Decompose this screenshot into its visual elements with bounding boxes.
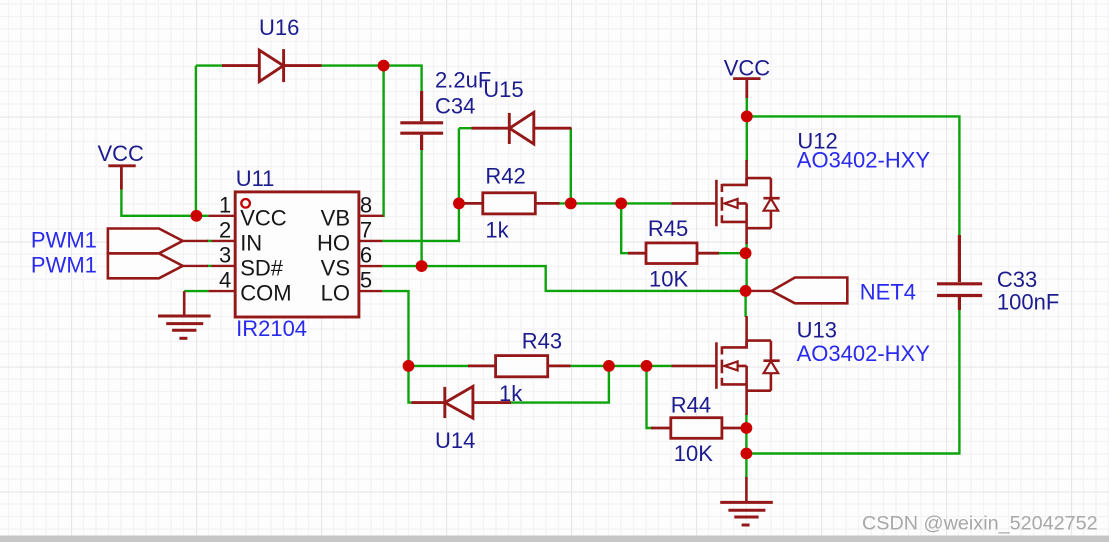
- internal vertical drain/source connections: [745, 341, 748, 415]
- wire R43 left lead green segment: [409, 365, 471, 367]
- gate lead: [672, 202, 717, 205]
- wire R45 branch vertical and left lead: [621, 203, 630, 253]
- svg-text:10K: 10K: [649, 266, 688, 291]
- svg-text:SD#: SD#: [240, 256, 284, 281]
- svg-text:100nF: 100nF: [997, 290, 1059, 315]
- port PWM1 (pin2): [108, 229, 183, 254]
- wire R44 right lead green bit: [742, 427, 746, 429]
- node ground rail: [741, 448, 753, 460]
- svg-text:VCC: VCC: [724, 56, 771, 81]
- wire pin4 COM to ground corner: [184, 290, 208, 292]
- svg-text:U16: U16: [259, 15, 299, 40]
- svg-text:PWM1: PWM1: [31, 253, 97, 278]
- svg-text:VCC: VCC: [240, 205, 287, 230]
- wire U15 right corner down to R42-right junction: [570, 128, 572, 203]
- wire VB vertical from top junction to pin8: [382, 66, 385, 216]
- wire VCC-right down to top-right junction: [746, 97, 748, 116]
- wire U13 source through junctions to ground: [745, 413, 747, 478]
- port NET4 lead: [748, 290, 772, 292]
- resistor R42: [465, 193, 560, 214]
- svg-text:U13: U13: [797, 318, 837, 343]
- node R44 right / U13 source: [741, 422, 753, 434]
- node NET4: [740, 285, 752, 297]
- node VCC top right: [741, 111, 753, 123]
- body diode cathode bar: [763, 359, 779, 362]
- svg-text:HO: HO: [317, 230, 350, 255]
- wire VCC-left vertical+horizontal to pin1 junction: [121, 189, 208, 216]
- wire U16 cathode to C34 top corner: [320, 66, 422, 93]
- wire R45 right lead green bit: [717, 252, 746, 254]
- svg-text:U14: U14: [435, 428, 475, 453]
- gate bar: [715, 180, 718, 227]
- wire top bootstrap rail left vertical: [195, 66, 197, 216]
- svg-text:1k: 1k: [499, 381, 523, 406]
- svg-text:4: 4: [219, 268, 231, 293]
- svg-text:2: 2: [219, 217, 231, 242]
- mid stub: [725, 365, 747, 368]
- U11 pin stubs left (1-4): [208, 216, 235, 291]
- node R43 left / LO: [403, 360, 415, 372]
- capacitor C33: [937, 235, 982, 310]
- body diode top/bottom bars: [747, 341, 771, 391]
- wire ground rail to C33 bottom: [746, 308, 959, 454]
- node R42 left / HO: [453, 198, 465, 210]
- body diode vertical: [770, 341, 773, 391]
- node VB bootstrap junction: [378, 60, 390, 72]
- mid stub: [725, 202, 747, 205]
- pin1 indicator circle: [241, 199, 250, 208]
- gate lead: [672, 365, 717, 368]
- ground GND1 (under U11): [158, 291, 211, 338]
- svg-text:IR2104: IR2104: [236, 316, 307, 341]
- wire NET4 node down to U13 drain: [744, 291, 746, 317]
- body diode triangle: [764, 199, 779, 211]
- svg-text:PWM1: PWM1: [31, 228, 97, 253]
- resistor R44: [651, 418, 745, 439]
- wire U15 left corner down to R42-left junction: [459, 128, 473, 203]
- svg-text:IN: IN: [240, 230, 262, 255]
- svg-text:U11: U11: [236, 166, 275, 191]
- svg-text:10K: 10K: [674, 441, 713, 466]
- power port VCC right: [733, 79, 760, 98]
- port PWM1 leads to pins 2,3: [183, 241, 208, 266]
- svg-text:R42: R42: [485, 164, 525, 189]
- svg-text:6: 6: [360, 243, 372, 268]
- svg-text:C34: C34: [435, 94, 475, 119]
- svg-text:1: 1: [219, 192, 231, 217]
- source stub: [722, 221, 747, 224]
- svg-text:C33: C33: [997, 267, 1037, 292]
- port NET4: [772, 278, 848, 304]
- svg-text:R44: R44: [671, 393, 711, 418]
- wire VS pin6 run to NET4 node: [382, 266, 745, 291]
- svg-text:COM: COM: [240, 281, 291, 306]
- svg-text:8: 8: [360, 192, 372, 217]
- svg-text:LO: LO: [321, 281, 350, 306]
- node R45 branch: [615, 198, 627, 210]
- body diode cathode bar: [763, 197, 779, 200]
- body diode top/bottom bars: [747, 178, 771, 228]
- IC U11 IR2104 body: [235, 192, 359, 317]
- gate bar: [715, 342, 718, 389]
- wire LO pin5 to R43-left riser: [382, 291, 408, 366]
- arrow on mid stub: [725, 199, 738, 208]
- wire top-right rail to C33 top: [747, 116, 960, 237]
- node R44 branch: [641, 360, 653, 372]
- svg-text:AO3402-HXY: AO3402-HXY: [797, 341, 931, 366]
- wire U12 source to NET4 node: [745, 242, 747, 291]
- wire U12 drain riser: [746, 116, 748, 162]
- node pin1/VCC junction: [191, 210, 203, 222]
- svg-text:U15: U15: [483, 77, 523, 102]
- svg-text:CSDN @weixin_52042752: CSDN @weixin_52042752: [862, 513, 1098, 535]
- svg-text:R43: R43: [522, 328, 562, 353]
- svg-text:AO3402-HXY: AO3402-HXY: [797, 148, 931, 173]
- bottom scrollbar strip: [0, 536, 1109, 542]
- svg-text:NET4: NET4: [860, 280, 916, 305]
- drain stub + lead: [722, 316, 747, 347]
- power port VCC left: [108, 166, 135, 190]
- wire R42 left lead green bit: [459, 202, 466, 204]
- node R43 right / U14: [603, 360, 615, 372]
- wire pin3 green pip: [207, 265, 212, 267]
- channel segments: [721, 346, 724, 385]
- wire U14 left loop: [409, 366, 414, 403]
- arrow on mid stub: [725, 361, 738, 370]
- diode U16: [222, 49, 322, 82]
- ground GND2 (under U13): [720, 477, 773, 525]
- resistor R45: [628, 243, 719, 264]
- internal vertical drain/source connections: [745, 178, 748, 244]
- node R42 right / U15: [565, 198, 577, 210]
- svg-text:5: 5: [360, 268, 372, 293]
- wire C34 bottom to VS junction: [420, 148, 422, 266]
- mosfet U12 AO3402-HXY: [672, 160, 780, 244]
- source stub: [722, 383, 747, 386]
- wire pin2 green pip: [207, 240, 212, 242]
- node VS / C34: [416, 260, 428, 272]
- wire U14 right loop up to R43-right junction: [510, 366, 609, 403]
- wire R42 right to junctions toward U12 gate: [557, 202, 673, 204]
- node U12 source / R45: [740, 247, 752, 259]
- body diode triangle: [764, 361, 779, 373]
- port PWM1 (pin3): [108, 253, 183, 278]
- diode U14: [412, 386, 512, 418]
- body diode vertical: [770, 178, 773, 228]
- wire top rail left segment to U16 anode: [196, 64, 224, 66]
- svg-text:VB: VB: [321, 205, 350, 230]
- svg-text:7: 7: [360, 217, 372, 242]
- svg-text:3: 3: [219, 243, 231, 268]
- svg-text:R45: R45: [648, 216, 688, 241]
- svg-text:VCC: VCC: [98, 141, 145, 166]
- svg-text:1k: 1k: [485, 218, 509, 243]
- wire R43 right to junctions toward U13 gate: [569, 365, 673, 367]
- resistor R43: [468, 356, 571, 377]
- wire HO pin7 to R42-left riser: [382, 206, 459, 241]
- drain stub + lead: [722, 160, 747, 185]
- wire R44 branch vertical: [647, 366, 654, 428]
- capacitor C34: [400, 91, 443, 150]
- mosfet U13 AO3402-HXY: [672, 316, 780, 415]
- svg-text:VS: VS: [321, 256, 350, 281]
- diode U15: [472, 112, 572, 144]
- U11 pin stubs right (8-5): [359, 216, 384, 291]
- channel segments: [721, 184, 724, 223]
